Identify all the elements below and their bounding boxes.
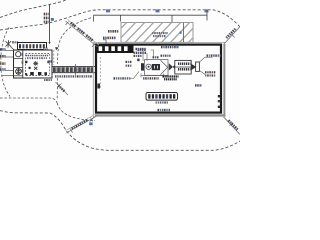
small legend box blue dot xyxy=(44,49,46,51)
conv unit r1 xyxy=(178,62,190,65)
pole label r1 xyxy=(44,13,49,16)
mach label pre1X xyxy=(153,56,159,58)
discharge arrow dark xyxy=(191,64,196,71)
mill dark block xyxy=(152,64,160,70)
boundary station label 1 (blue) xyxy=(106,9,110,12)
pole label r3 xyxy=(44,21,49,24)
hatch label r1 xyxy=(152,32,168,34)
annex cell divider 3 xyxy=(14,75,23,77)
annex cell divider 1 xyxy=(14,57,23,59)
mach below label xyxy=(143,77,159,79)
discharge end box xyxy=(196,62,200,71)
crusher drum circle xyxy=(146,64,151,69)
boundary station label 3 (blue) xyxy=(205,9,209,12)
benchmark X symbol xyxy=(6,40,12,47)
machine room equipment block 3 xyxy=(44,72,47,75)
NE gate tick xyxy=(232,34,235,38)
dimension tick west xyxy=(93,15,95,21)
machine room column dot NW xyxy=(25,61,27,63)
feed diamond mark xyxy=(137,59,139,62)
inner lot dashed vertical below conveyor xyxy=(56,78,58,100)
bldg right text xyxy=(48,60,52,62)
left margin leader 4 line xyxy=(6,70,14,72)
machine dim bracket below xyxy=(141,74,164,78)
machine housing outline xyxy=(145,60,168,76)
right leader horizontal xyxy=(200,57,213,62)
left margin leader 2 line xyxy=(6,56,14,58)
conveyor divider tick xyxy=(75,64,77,75)
SE gate tick xyxy=(230,123,234,126)
SW short fence tick xyxy=(59,84,62,87)
SE gate rotated text xyxy=(228,119,239,130)
small legend box right of title box xyxy=(44,48,48,52)
existing building title box (striped) xyxy=(18,43,47,50)
warehouse SW corner blue label xyxy=(89,122,92,125)
inner lot dashed arc to building corner xyxy=(57,103,95,121)
equip strip r2 xyxy=(27,57,47,59)
right lower r1 xyxy=(205,71,215,73)
machine room inner dashed wall xyxy=(26,53,50,75)
outer boundary dashed (bottom-left and bottom) xyxy=(0,111,240,151)
canopy leader text xyxy=(108,30,118,33)
main warehouse black wall rectangle xyxy=(96,45,221,113)
annex door marks xyxy=(22,53,24,56)
mach label 1X xyxy=(161,55,171,57)
section mark top xyxy=(161,46,179,48)
inside bl text xyxy=(114,77,131,79)
weighbridge leader xyxy=(103,40,106,44)
north small dark arrow on inner boundary xyxy=(55,47,58,50)
mach label t3 xyxy=(134,55,142,57)
right lower leader xyxy=(200,71,206,75)
machine room fan symbol upper xyxy=(33,61,38,66)
NW gate road line B xyxy=(68,20,100,46)
interior dashed line near west wall xyxy=(99,57,101,88)
below mach bold2 xyxy=(164,78,177,80)
weighbridge black box (striped) at NW inside xyxy=(96,45,134,53)
SE gate road line xyxy=(224,117,241,135)
right small text xyxy=(195,84,202,86)
office label xyxy=(138,48,146,51)
benchmark leader arrow xyxy=(11,47,15,51)
right lower r2 xyxy=(205,74,215,76)
pole label r2 xyxy=(44,17,49,20)
inner lot dashed boundary: top arc + vertical x57.5 xyxy=(58,18,92,64)
machine room SW column dot xyxy=(25,73,27,75)
machine room fan symbol lower xyxy=(34,67,37,70)
SW short fence rotated text xyxy=(57,84,65,92)
machine leader to bottom-left text xyxy=(130,72,139,79)
pole arrowhead xyxy=(48,42,50,44)
left label3 xyxy=(0,62,6,65)
SW gate tick2 xyxy=(91,118,94,122)
main warehouse south gray shadow band xyxy=(95,114,225,116)
dashed line right of left building xyxy=(53,50,55,65)
mach left r2 xyxy=(126,65,132,67)
conveyor rung lines xyxy=(56,67,90,73)
machine room equipment block 1 xyxy=(30,72,34,75)
main warehouse east gray shadow band xyxy=(223,44,225,117)
machine room equipment block 2 xyxy=(38,72,41,75)
crusher feed hopper dark bar xyxy=(141,63,144,70)
housing funnel converging lines xyxy=(161,60,168,74)
SW gate road line B xyxy=(66,114,96,130)
crusher drum inner xyxy=(148,66,150,68)
bldg below text xyxy=(44,79,52,81)
SW gate rotated text xyxy=(71,119,88,130)
annex pump symbol bottom xyxy=(16,68,22,75)
conveyor unit box xyxy=(175,60,191,74)
site boundary dashed line (top, main) xyxy=(0,10,240,30)
left building annex divider xyxy=(22,50,24,78)
SW gate tick1 xyxy=(70,129,73,133)
weighbridge label xyxy=(103,37,116,40)
left label2 xyxy=(0,55,6,58)
conveyor dim text xyxy=(55,75,92,77)
right leader label xyxy=(207,54,222,56)
NW gate tick2 xyxy=(92,44,95,48)
boundary station label 2 (blue) xyxy=(156,9,160,12)
machine top leader lines xyxy=(143,50,154,61)
west wall door mark xyxy=(97,84,100,89)
hatched canopy band xyxy=(104,19,220,46)
east wall equipment marks xyxy=(218,95,221,97)
left building outer wall xyxy=(14,50,53,78)
dimension line above north wall xyxy=(94,14,208,16)
conveyor dark tread cells xyxy=(53,67,93,72)
benchmark text xyxy=(12,41,18,43)
SW short fence diagonal near left building xyxy=(56,82,69,95)
annex tank circle top xyxy=(16,52,21,57)
NE gate road line xyxy=(224,27,241,45)
NW gate tick1 xyxy=(66,22,69,26)
left label4 xyxy=(0,68,6,71)
flag pole vertical line xyxy=(49,4,51,44)
main warehouse outer gray line left xyxy=(92,42,94,117)
pole blue mark right xyxy=(51,18,54,21)
blue dot in hatch band xyxy=(180,31,182,33)
storage area text xyxy=(156,101,169,103)
dimension tick mid xyxy=(120,15,122,21)
annex cell divider 2 xyxy=(14,66,23,68)
storage label rounded box xyxy=(146,93,178,101)
conveyor bridge rails xyxy=(52,66,95,68)
left label1 xyxy=(0,48,6,51)
south wall label xyxy=(158,109,171,111)
below mach bold1 xyxy=(163,75,179,77)
NW gate rotated text xyxy=(70,22,93,42)
mach label t1 xyxy=(136,48,146,50)
NW gate road line A xyxy=(66,21,98,47)
bowtie separator symbol xyxy=(169,63,177,70)
equip strip r1 xyxy=(26,55,48,57)
warehouse SW corner diagonal mark xyxy=(90,116,95,121)
site boundary dashed road line (outermost, top-left) xyxy=(0,0,66,18)
west dashed arc around left building xyxy=(1,28,10,97)
machine room dark dot W xyxy=(29,67,31,69)
SW gate road line A xyxy=(67,116,97,133)
mach label t2 xyxy=(134,52,147,54)
main warehouse outer gray line top xyxy=(93,41,225,43)
hatch label r2 xyxy=(153,35,166,37)
inner lot dashed horizontal west leg xyxy=(0,98,57,103)
conv unit r2 xyxy=(178,68,190,71)
left margin leader 5 line xyxy=(2,75,14,77)
machine room column dot NE xyxy=(47,61,49,63)
dimension tick east xyxy=(206,10,208,21)
dimension tick mid2 xyxy=(171,15,173,24)
NE gate rotated text xyxy=(225,28,236,39)
left margin leader 1 line xyxy=(6,50,14,52)
mach left r1 xyxy=(126,61,132,63)
